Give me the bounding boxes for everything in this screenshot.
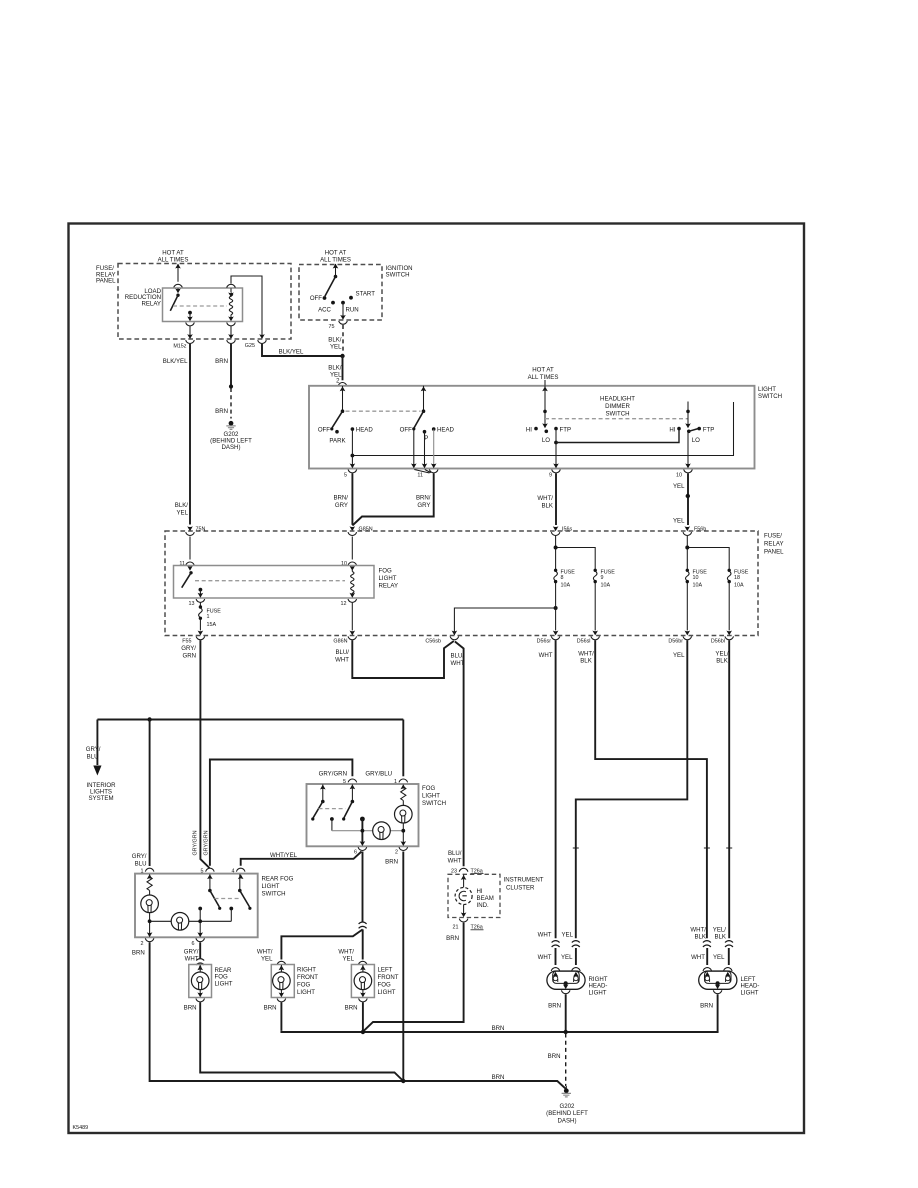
- wire YEL D56br to right headlight: [561, 640, 687, 938]
- svg-text:LIGHT: LIGHT: [215, 980, 233, 987]
- wire WHT/BLK pin9 to I56s: [537, 474, 556, 526]
- rear fog switch pin 2: [141, 932, 154, 947]
- wire BRN from relay coil to ground: [215, 344, 233, 419]
- svg-text:FRONT: FRONT: [297, 974, 318, 981]
- fog switch illumination lamp: [373, 822, 391, 840]
- fog switch contact B: [342, 784, 354, 820]
- svg-text:BRN: BRN: [492, 1025, 505, 1032]
- rear fog switch pin 6: [192, 921, 205, 947]
- svg-text:FRONT: FRONT: [378, 974, 399, 981]
- svg-text:HEAD: HEAD: [356, 427, 374, 434]
- relay pin 13: [189, 590, 205, 607]
- dimmer switch 1: [526, 386, 571, 444]
- svg-text:11: 11: [417, 472, 423, 478]
- fog switch contact A: [311, 784, 325, 820]
- relay K coil: [227, 284, 236, 321]
- svg-text:HEADLIGHT: HEADLIGHT: [600, 396, 635, 403]
- wire ftp1 to hi2 link: [556, 429, 679, 443]
- svg-text:10A: 10A: [693, 582, 703, 588]
- wire BLK/YEL M15z down: [163, 344, 190, 525]
- svg-text:BRN: BRN: [700, 1002, 713, 1009]
- svg-text:BRN: BRN: [184, 1005, 197, 1012]
- svg-text:5: 5: [343, 779, 346, 785]
- svg-text:SWITCH: SWITCH: [605, 411, 629, 418]
- svg-text:CLUSTER: CLUSTER: [506, 885, 535, 892]
- svg-text:YEL: YEL: [330, 343, 342, 350]
- label WHT/YEL (right front): [257, 948, 273, 962]
- left headlight: [699, 968, 760, 997]
- svg-text:LIGHT: LIGHT: [297, 989, 315, 996]
- fog light relay pin 10: [341, 561, 357, 571]
- svg-text:SWITCH: SWITCH: [758, 393, 782, 400]
- svg-text:WHT/: WHT/: [338, 948, 354, 955]
- ignition switch (dashed box): [299, 265, 413, 321]
- connector F56b: [683, 526, 706, 535]
- svg-text:LIGHT: LIGHT: [262, 883, 280, 890]
- wire YEL pin10 to F56b: [673, 474, 690, 526]
- svg-text:D56br: D56br: [668, 639, 683, 645]
- svg-text:BRN: BRN: [345, 1005, 358, 1012]
- right headlight: [547, 968, 608, 997]
- switch 1 (off/park/head): [318, 386, 374, 444]
- inline connector WHT: [538, 941, 560, 965]
- svg-text:BLK/: BLK/: [328, 364, 342, 371]
- svg-text:PANEL: PANEL: [96, 278, 116, 285]
- svg-text:BLK/YEL: BLK/YEL: [279, 349, 304, 356]
- svg-text:PARK: PARK: [329, 437, 345, 444]
- pin 9: [549, 470, 560, 479]
- svg-text:RUN: RUN: [346, 306, 359, 313]
- connector D56bl: [711, 583, 734, 645]
- fuse/relay panel (main, dashed box): [165, 531, 784, 636]
- wire WHT/YEL fog switch pin6 to rear fog switch pin4: [241, 852, 362, 866]
- svg-text:GRY/BLU: GRY/BLU: [365, 771, 392, 778]
- svg-text:HEAD: HEAD: [437, 427, 455, 434]
- svg-text:BLK/: BLK/: [175, 502, 189, 509]
- wire YEL/BLK D56bl to left headlight: [713, 640, 729, 940]
- fog light relay coil: [350, 570, 356, 598]
- svg-text:RELAY: RELAY: [141, 300, 161, 307]
- relay K (load reduction relay) box: [125, 288, 243, 322]
- connector G86N: [333, 603, 356, 645]
- rear fog switch pin 1: [141, 868, 154, 879]
- fog switch pin 1: [394, 779, 408, 790]
- wire BLK/YEL 2 to light switch: [328, 356, 347, 391]
- svg-text:SYSTEM: SYSTEM: [88, 795, 113, 802]
- svg-text:(BEHIND LEFT: (BEHIND LEFT: [546, 1110, 588, 1117]
- svg-text:OFF: OFF: [310, 295, 322, 302]
- svg-text:15A: 15A: [207, 622, 217, 628]
- svg-text:2: 2: [141, 941, 144, 947]
- pin M15z exit: [173, 313, 194, 349]
- svg-text:BRN/: BRN/: [333, 495, 348, 502]
- connector D56sl: [577, 583, 600, 645]
- fog switch pin 2: [385, 841, 407, 865]
- svg-text:YEL/: YEL/: [715, 650, 729, 657]
- node HOT AT ALL TIMES (light switch): [528, 367, 559, 386]
- wire BRN left headlight to bus: [700, 994, 717, 1032]
- svg-text:BRN/: BRN/: [416, 495, 431, 502]
- svg-text:WHT/: WHT/: [578, 650, 594, 657]
- svg-text:10: 10: [693, 575, 699, 581]
- svg-text:SWITCH: SWITCH: [386, 272, 410, 279]
- left front fog light: [351, 961, 398, 1002]
- svg-text:REAR FOG: REAR FOG: [262, 876, 294, 883]
- wire F56b to fuses 10+18: [685, 536, 729, 570]
- svg-text:G25: G25: [245, 343, 255, 349]
- svg-text:FOG: FOG: [379, 568, 392, 575]
- svg-text:BRN: BRN: [492, 1074, 505, 1081]
- svg-text:WHT: WHT: [691, 954, 705, 961]
- svg-text:YEL: YEL: [261, 956, 273, 963]
- ground G202 (behind left dash): [210, 421, 252, 451]
- relay pin 12: [341, 599, 357, 607]
- svg-text:FUSE/: FUSE/: [764, 533, 782, 540]
- svg-text:WHT: WHT: [448, 857, 462, 864]
- label GRY/GRN (rotated pair): [193, 830, 210, 855]
- fuse 10 10A: [686, 569, 708, 589]
- svg-text:DASH): DASH): [558, 1117, 577, 1124]
- svg-text:10: 10: [676, 472, 682, 478]
- wire BRN right headlight to bus: [548, 994, 566, 1032]
- fuse 8 10A: [554, 569, 575, 589]
- svg-text:BRN: BRN: [215, 358, 228, 365]
- svg-text:LO: LO: [692, 437, 700, 444]
- fog switch pin 6 output: [354, 819, 367, 856]
- wire BRN right front fog to bus: [264, 1002, 282, 1030]
- svg-text:1: 1: [394, 779, 397, 785]
- connector F55: [182, 620, 204, 645]
- svg-text:9: 9: [601, 575, 604, 581]
- svg-text:YEL: YEL: [713, 954, 725, 961]
- fuse 1 15A: [199, 603, 222, 628]
- wire dimmer2 to pin 10: [685, 432, 691, 469]
- svg-text:GRY/GRN: GRY/GRN: [319, 771, 347, 778]
- svg-text:GRY/: GRY/: [86, 746, 101, 753]
- svg-text:GRY/GRN: GRY/GRN: [193, 830, 199, 855]
- wire GRY/BLU to fog light switch pin 1: [365, 720, 403, 778]
- svg-text:WHT/YEL: WHT/YEL: [270, 852, 298, 859]
- node HOT AT ALL TIMES (ignition): [320, 250, 351, 277]
- svg-text:8: 8: [561, 575, 564, 581]
- fuse/relay panel (top, dashed box): [96, 264, 291, 340]
- svg-text:LIGHT: LIGHT: [378, 989, 396, 996]
- svg-text:WHT: WHT: [451, 660, 465, 667]
- wire BLU/WHT G86N loop to C56sb: [335, 640, 454, 678]
- connector D56sr: [537, 583, 560, 645]
- svg-text:6: 6: [192, 941, 195, 947]
- svg-text:D56sr: D56sr: [537, 639, 552, 645]
- svg-text:75N: 75N: [196, 527, 206, 533]
- svg-text:D56bl: D56bl: [711, 639, 725, 645]
- svg-text:BLK: BLK: [714, 933, 726, 940]
- wire GRY/GRN fog switch pin5 to rear fog switch pin5: [210, 760, 353, 866]
- svg-text:G202: G202: [560, 1103, 576, 1110]
- wire WHT D56sr to right headlight: [538, 640, 556, 938]
- fog light relay pin 11: [179, 561, 194, 571]
- svg-text:YEL: YEL: [176, 509, 188, 516]
- svg-text:BLU/: BLU/: [451, 653, 465, 660]
- fuse 18 10A: [727, 569, 748, 589]
- svg-text:PANEL: PANEL: [764, 549, 784, 556]
- wire BRN rear fog switch pin2 to ground bus: [132, 942, 566, 1089]
- wire head1 contact to pin 5: [350, 430, 356, 469]
- svg-text:D56sl: D56sl: [577, 639, 591, 645]
- svg-text:ALL TIMES: ALL TIMES: [158, 257, 189, 264]
- svg-text:10A: 10A: [561, 582, 571, 588]
- svg-text:WHT/: WHT/: [537, 495, 553, 502]
- ignition switch contacts: [310, 275, 375, 314]
- svg-text:IND.: IND.: [477, 902, 489, 909]
- node HOT AT ALL TIMES (left): [158, 250, 189, 288]
- connector D56br: [668, 583, 691, 645]
- right front fog light: [271, 961, 318, 1002]
- switch 2 (off/p/head): [400, 386, 455, 442]
- wires switch2 outputs to pin 11: [411, 430, 437, 474]
- svg-text:DASH): DASH): [222, 444, 241, 451]
- svg-text:YEL: YEL: [342, 956, 354, 963]
- svg-text:HI: HI: [477, 888, 483, 895]
- relay K internal dashed link: [173, 305, 227, 307]
- svg-text:BLU: BLU: [87, 753, 99, 760]
- svg-text:BLU/: BLU/: [448, 850, 462, 857]
- wire G85N to relay pin 10: [351, 537, 353, 560]
- svg-text:6: 6: [354, 850, 357, 856]
- svg-text:9: 9: [549, 472, 552, 478]
- svg-text:BLK/YEL: BLK/YEL: [163, 358, 188, 365]
- svg-text:BEAM: BEAM: [477, 895, 494, 902]
- svg-text:YEL: YEL: [561, 954, 573, 961]
- svg-text:DIMMER: DIMMER: [605, 403, 630, 410]
- svg-text:GRN: GRN: [182, 652, 196, 659]
- svg-text:G86N: G86N: [333, 639, 347, 645]
- connector C56sb: [425, 631, 458, 645]
- svg-text:BLU: BLU: [135, 860, 147, 867]
- svg-text:SWITCH: SWITCH: [422, 800, 446, 807]
- svg-text:BRN: BRN: [385, 859, 398, 866]
- svg-text:HI: HI: [669, 427, 675, 434]
- svg-text:GRY/: GRY/: [181, 645, 196, 652]
- connector I56s: [551, 526, 572, 535]
- svg-text:GRY/GRN: GRY/GRN: [204, 830, 210, 855]
- svg-text:F55: F55: [182, 639, 191, 645]
- svg-text:OFF: OFF: [400, 427, 412, 434]
- fog switch internal dashed: [319, 808, 346, 810]
- svg-text:K5489: K5489: [73, 1125, 89, 1131]
- svg-text:BRN: BRN: [215, 408, 228, 415]
- svg-text:BRN: BRN: [548, 1002, 561, 1009]
- svg-text:BLK: BLK: [541, 502, 553, 509]
- svg-text:LIGHT: LIGHT: [589, 989, 607, 996]
- svg-text:INSTRUMENT: INSTRUMENT: [504, 877, 544, 884]
- wire GRY/GRN from F55: [181, 640, 209, 868]
- svg-text:FOG: FOG: [297, 982, 310, 989]
- fog switch indicator lamp: [395, 801, 413, 844]
- inline connector YEL/BLK: [713, 941, 733, 965]
- svg-text:LIGHT: LIGHT: [422, 793, 440, 800]
- svg-text:BRN: BRN: [264, 1005, 277, 1012]
- fog switch lamp wire (gray): [332, 830, 403, 832]
- svg-text:WHT: WHT: [538, 954, 552, 961]
- rear fog switch internal dashed: [215, 898, 240, 900]
- instrument cluster (dashed box): [448, 874, 544, 917]
- pin 5: [344, 470, 357, 479]
- relay K switch contact: [170, 288, 192, 314]
- svg-text:HOT AT: HOT AT: [325, 250, 347, 257]
- pin G coil exit: [227, 323, 236, 344]
- svg-text:18: 18: [734, 575, 740, 581]
- svg-text:GRY: GRY: [335, 502, 348, 509]
- wire ftp1 to pin 9: [553, 429, 559, 468]
- svg-text:5: 5: [344, 472, 347, 478]
- svg-text:FTP: FTP: [560, 427, 572, 434]
- svg-text:YEL: YEL: [673, 517, 685, 524]
- svg-text:HOT AT: HOT AT: [532, 367, 554, 374]
- svg-text:WHT: WHT: [185, 956, 199, 963]
- svg-text:YEL: YEL: [673, 483, 685, 490]
- svg-text:M15z: M15z: [173, 343, 186, 349]
- svg-text:SWITCH: SWITCH: [262, 891, 286, 898]
- svg-text:START: START: [356, 291, 376, 298]
- svg-text:75: 75: [329, 324, 335, 330]
- inline connector YEL: [561, 941, 580, 965]
- ground G202 (behind left dash): [546, 1088, 588, 1124]
- rear fog switch pin 4: [232, 868, 246, 879]
- wire BRN rear fog light to ground bus: [184, 1002, 404, 1081]
- headlight dimmer switch label: [600, 396, 635, 418]
- connector 75N: [186, 526, 206, 535]
- svg-text:BLK: BLK: [694, 933, 706, 940]
- svg-text:13: 13: [189, 601, 195, 607]
- svg-text:12: 12: [341, 601, 347, 607]
- wire BLK/YEL from G25 to ignition junction: [262, 344, 342, 356]
- svg-text:BRN: BRN: [132, 950, 145, 957]
- rear fog light switch box: [135, 874, 294, 938]
- light switch box: [309, 386, 782, 469]
- svg-text:RELAY: RELAY: [764, 541, 784, 548]
- fog switch pin1 resistor: [401, 785, 406, 801]
- connector 23 T26a: [451, 868, 484, 874]
- svg-text:ALL TIMES: ALL TIMES: [528, 374, 559, 381]
- fog light relay switch: [182, 571, 203, 591]
- wire I56s to fuses 8+9: [554, 536, 596, 570]
- svg-text:FOG: FOG: [422, 785, 435, 792]
- svg-text:FTP: FTP: [703, 427, 715, 434]
- wire GRY/WHT pin6 to rear fog light: [184, 942, 204, 968]
- fog switch pin 5: [343, 779, 357, 790]
- svg-text:WHT/: WHT/: [257, 948, 273, 955]
- connector 21 T26a: [453, 919, 484, 931]
- svg-text:GRY/: GRY/: [132, 853, 147, 860]
- fog light relay box: [174, 566, 399, 599]
- svg-text:GRY: GRY: [417, 502, 430, 509]
- internal dashed link dimmer1-dimmer2: [545, 418, 688, 420]
- inline connector WHT/BLK: [691, 941, 711, 965]
- page border frame: [69, 224, 805, 1134]
- fuse 9 10A: [593, 569, 615, 589]
- svg-text:BLK/: BLK/: [328, 336, 342, 343]
- svg-text:C56sb: C56sb: [425, 639, 441, 645]
- wire GRY/BLU distribution (horizontal): [97, 717, 403, 721]
- light switch internal bus wire: [352, 402, 733, 456]
- fog light relay dashed link: [195, 580, 345, 582]
- fog switch stationary contacts: [330, 817, 365, 831]
- pin 11: [417, 470, 438, 479]
- svg-text:23: 23: [451, 868, 457, 874]
- svg-text:BRN: BRN: [548, 1053, 561, 1060]
- BRN bus (headlights + front fogs): [281, 1025, 717, 1034]
- wire BRN/GRY pin5 to G85N: [333, 474, 352, 525]
- rear fog switch internal bus + lamp: [150, 913, 232, 931]
- wire coil top to G25: [231, 276, 266, 349]
- svg-text:BRN: BRN: [446, 935, 459, 942]
- pin 10: [676, 470, 692, 479]
- rear fog switch pin1 resistor + lamp: [141, 874, 159, 935]
- rear fog switch contact A: [208, 874, 221, 910]
- node INTERIOR LIGHTS SYSTEM: [86, 782, 116, 802]
- svg-text:WHT: WHT: [335, 656, 349, 663]
- svg-text:HOT AT: HOT AT: [162, 250, 184, 257]
- svg-text:HI: HI: [526, 427, 532, 434]
- rear fog switch pin 5: [201, 868, 215, 879]
- wire BLK/YEL ignition to junction: [328, 325, 344, 358]
- svg-text:WHT: WHT: [538, 932, 552, 939]
- internal dashed link sw1-sw2: [346, 410, 421, 412]
- svg-text:FOG: FOG: [378, 982, 391, 989]
- svg-text:BLK: BLK: [716, 658, 728, 665]
- rear fog switch contact B: [238, 874, 251, 910]
- wire C56sb to fuse 8 (inside panel): [454, 606, 557, 635]
- svg-text:LIGHT: LIGHT: [379, 575, 397, 582]
- rear fog light: [189, 965, 233, 1002]
- svg-text:LEFT: LEFT: [378, 967, 393, 974]
- svg-text:RIGHT: RIGHT: [297, 967, 316, 974]
- svg-text:ALL TIMES: ALL TIMES: [320, 257, 351, 264]
- dimmer switch 2: [669, 402, 714, 445]
- svg-text:RELAY: RELAY: [379, 583, 399, 590]
- wire WHT/BLK D56sl to left headlight: [578, 640, 707, 940]
- wire BRN/GRY pin11 joining pin5: [352, 474, 433, 526]
- svg-text:10A: 10A: [601, 582, 611, 588]
- BRN ground bus (bottom): [401, 1074, 504, 1083]
- svg-text:LIGHT: LIGHT: [741, 989, 759, 996]
- wire GRY/BLU to interior lights system: [86, 720, 102, 776]
- rear fog switch stationary contacts: [198, 907, 233, 922]
- fog light switch box: [307, 784, 447, 846]
- svg-text:OFF: OFF: [318, 427, 330, 434]
- svg-text:10A: 10A: [734, 582, 744, 588]
- svg-text:21: 21: [453, 925, 459, 931]
- svg-text:YEL: YEL: [561, 932, 573, 939]
- wire BLU/WHT C56sb to instrument cluster: [448, 642, 465, 867]
- svg-text:WHT: WHT: [539, 652, 553, 659]
- wire WHT/YEL trunk to front fog lights: [281, 852, 366, 960]
- wire BRN fog switch pin2 to ground bus: [402, 852, 404, 1082]
- svg-text:BLU/: BLU/: [335, 649, 349, 656]
- wire BRN instrument cluster to bus: [363, 923, 464, 1032]
- connector G85N: [348, 526, 373, 535]
- svg-text:1: 1: [207, 614, 210, 620]
- wire GRY/BLU to rear fog light switch pin 1: [132, 720, 150, 868]
- svg-text:YEL: YEL: [673, 652, 685, 659]
- svg-text:2: 2: [395, 850, 398, 856]
- wire 75N to relay pin 11: [189, 537, 191, 560]
- pin 75 exit: [329, 303, 348, 330]
- wire BRN dashed to ground: [548, 1034, 567, 1089]
- svg-text:ACC: ACC: [318, 306, 331, 313]
- svg-text:GRY/: GRY/: [184, 948, 199, 955]
- label WHT/YEL (left front): [338, 948, 354, 962]
